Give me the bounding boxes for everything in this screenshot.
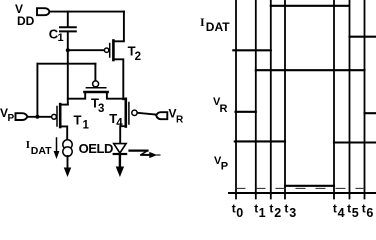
svg-text:T: T	[74, 112, 82, 127]
junction dot node A	[66, 48, 70, 52]
dashed baseline	[236, 187, 376, 189]
wire VDD rail	[50, 11, 125, 13]
svg-text:t: t	[269, 202, 273, 216]
svg-text:P: P	[8, 113, 15, 124]
label T4	[109, 111, 123, 129]
gridline t2	[270, 1, 272, 199]
label t5	[347, 202, 359, 221]
svg-text:t: t	[362, 202, 366, 216]
label t6	[362, 202, 374, 221]
label C1	[49, 27, 64, 45]
gridline t4	[333, 1, 335, 199]
wire current source to ground arrow	[67, 156, 69, 169]
wire T2 gate	[68, 49, 105, 51]
input tag VP	[16, 113, 28, 120]
svg-text:1: 1	[259, 206, 266, 217]
svg-text:t: t	[232, 202, 236, 216]
svg-text:0: 0	[236, 206, 243, 217]
label t2	[269, 202, 281, 221]
svg-text:R: R	[176, 115, 184, 126]
time axis	[229, 192, 376, 194]
svg-text:1: 1	[83, 120, 90, 132]
svg-text:t: t	[254, 202, 258, 216]
svg-text:4: 4	[116, 117, 123, 129]
output tag VR	[156, 112, 167, 119]
svg-text:R: R	[220, 103, 228, 115]
wire VP to T1 gate	[27, 116, 51, 118]
junction dot VP node	[35, 115, 39, 119]
output label VR	[169, 107, 185, 126]
label T2	[128, 44, 141, 64]
waveform VP	[235, 141, 376, 185]
svg-text:I: I	[26, 139, 30, 151]
power tag VDD	[37, 8, 50, 15]
power label VDD	[15, 2, 35, 28]
label VR (timing)	[213, 96, 228, 115]
capacitor C1	[60, 27, 76, 31]
svg-text:DAT: DAT	[31, 145, 52, 157]
label IDAT (timing)	[200, 15, 230, 34]
gridline t1	[255, 1, 257, 199]
arrow light emission	[130, 151, 161, 159]
svg-text:4: 4	[338, 206, 345, 217]
svg-text:3: 3	[289, 206, 296, 217]
label t3	[284, 202, 296, 221]
svg-text:t: t	[333, 202, 337, 216]
label OELD	[79, 141, 113, 156]
svg-text:1: 1	[58, 32, 64, 44]
svg-text:I: I	[200, 15, 205, 29]
svg-text:5: 5	[352, 206, 359, 217]
svg-text:OELD: OELD	[79, 141, 113, 156]
label t4	[333, 202, 345, 221]
svg-text:6: 6	[366, 206, 373, 217]
wire T4 gate to VR tag	[137, 113, 156, 115]
svg-text:DAT: DAT	[206, 20, 230, 34]
gridline t6	[364, 1, 366, 199]
wire VP node to T3 gate crossover	[37, 64, 95, 117]
svg-text:3: 3	[98, 103, 104, 115]
gridline t5	[349, 1, 351, 199]
svg-text:t: t	[284, 202, 288, 216]
svg-text:DD: DD	[17, 14, 35, 28]
label t1	[254, 202, 265, 221]
label T3	[91, 95, 104, 115]
label t0	[232, 202, 244, 221]
transistor T2	[104, 12, 124, 99]
label T1	[74, 112, 90, 131]
current source IDAT	[63, 140, 72, 157]
wire C1 top lead	[67, 12, 69, 27]
transistor T4	[120, 99, 137, 144]
arrow IDAT current direction	[54, 138, 60, 159]
svg-text:P: P	[221, 161, 228, 173]
gridline t3	[284, 1, 286, 199]
transistor T3	[68, 81, 124, 99]
waveform IDAT	[233, 6, 376, 51]
label VP (timing)	[214, 155, 228, 173]
svg-text:t: t	[347, 202, 351, 216]
gridline t0	[235, 1, 237, 199]
diode OELD	[114, 144, 126, 154]
arrow below current source	[64, 168, 71, 178]
input label VP	[0, 106, 15, 124]
wire C1 bottom lead / node to T1 drain	[67, 31, 69, 104]
transistor T1	[52, 104, 68, 140]
svg-text:2: 2	[135, 51, 141, 63]
arrow OELD cathode down	[116, 154, 124, 177]
label IDAT	[26, 139, 52, 157]
svg-text:2: 2	[274, 206, 281, 217]
waveform VR	[236, 70, 376, 113]
